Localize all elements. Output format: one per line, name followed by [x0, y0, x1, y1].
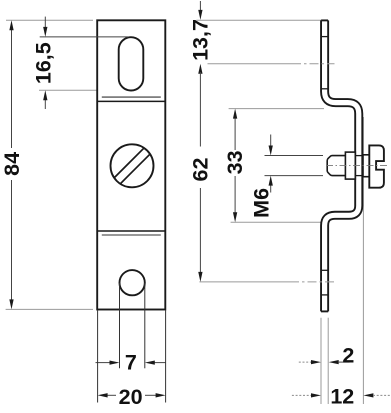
screw thread tip [327, 156, 345, 176]
dimension 2 [299, 344, 355, 368]
svg-text:33: 33 [223, 150, 247, 174]
dimension 7 [96, 283, 167, 375]
side view bottom end cap [321, 310, 328, 312]
svg-text:62: 62 [189, 158, 213, 182]
screw thread through plate [356, 155, 362, 157]
extension line slot centerline (13,7 bottom) [208, 63, 293, 65]
front view bottom hole [119, 270, 144, 295]
dimension M6 [250, 135, 323, 218]
side view slot edge ticks [321, 36, 328, 38]
front view bend line thin top [102, 96, 161, 98]
screw head side view [369, 145, 384, 187]
extension line 33 bottom [231, 221, 322, 223]
svg-text:16,5: 16,5 [32, 42, 56, 84]
side view hole edge ticks [321, 269, 328, 271]
extension line 12 right [362, 117, 364, 404]
dimension 20 [98, 311, 166, 410]
dimension 33 [223, 109, 247, 223]
dimension 62 [189, 72, 213, 282]
side view sheet profile (parallel surfaces via double stroke) [325, 20, 359, 311]
extension lines 2 (plate thickness) [321, 318, 328, 404]
dimension 13,7 [189, 1, 213, 74]
svg-text:2: 2 [342, 344, 354, 368]
front view slot [119, 37, 144, 90]
extension line hole centerline (62 bottom) [199, 281, 290, 283]
front view screw head circle [111, 144, 154, 187]
svg-text:84: 84 [0, 152, 24, 176]
svg-text:12: 12 [330, 384, 354, 408]
front view bend line thin bottom [102, 234, 161, 236]
front view bend line bottom [97, 230, 165, 232]
front view outline [97, 20, 165, 309]
extension line 33 top [229, 108, 324, 110]
screw collar [345, 152, 355, 179]
svg-text:20: 20 [119, 385, 143, 408]
front view screw slot lines [114, 148, 144, 178]
svg-text:13,7: 13,7 [189, 19, 213, 61]
extension line bottom of 84 [6, 308, 93, 310]
front view bend line top [97, 100, 165, 102]
dimension 84 [0, 20, 24, 309]
extension line slot bottom (16,5) [39, 89, 136, 91]
screw centerline [326, 165, 390, 167]
side view top end cap [321, 19, 328, 21]
svg-text:M6: M6 [250, 188, 274, 218]
dimension 12 [292, 384, 391, 408]
svg-text:7: 7 [125, 351, 137, 375]
dimension 16,5 [32, 17, 128, 109]
extension line top (84 / 13,7) [6, 19, 321, 21]
washer [363, 155, 369, 177]
